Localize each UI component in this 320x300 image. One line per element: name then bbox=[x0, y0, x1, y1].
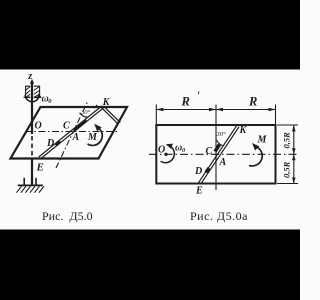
svg-text:0,5R: 0,5R bbox=[282, 132, 292, 149]
svg-text:R: R bbox=[181, 95, 190, 109]
svg-text:O: O bbox=[158, 144, 165, 155]
svg-text:Рис. Д5.0: Рис. Д5.0 bbox=[42, 209, 93, 223]
svg-text:K: K bbox=[239, 125, 248, 136]
svg-text:D: D bbox=[194, 166, 202, 177]
svg-text:D: D bbox=[46, 138, 54, 149]
svg-text:30°: 30° bbox=[216, 131, 227, 138]
svg-text:M: M bbox=[87, 132, 98, 143]
svg-text:C: C bbox=[206, 146, 213, 157]
svg-text:C: C bbox=[63, 121, 70, 132]
svg-text:z: z bbox=[27, 71, 32, 82]
svg-text:M: M bbox=[257, 134, 268, 145]
svg-text:A: A bbox=[219, 157, 227, 168]
svg-text:0,5R: 0,5R bbox=[282, 161, 292, 178]
svg-text:30°: 30° bbox=[80, 109, 91, 116]
svg-text:R: R bbox=[248, 95, 257, 109]
svg-text:A: A bbox=[72, 132, 80, 143]
svg-text:E: E bbox=[36, 161, 44, 173]
svg-text:K: K bbox=[102, 97, 111, 108]
svg-text:E: E bbox=[195, 185, 203, 196]
svg-text:O: O bbox=[35, 121, 42, 132]
svg-text:': ' bbox=[197, 88, 200, 103]
svg-text:Рис. Д5.0а: Рис. Д5.0а bbox=[190, 209, 248, 223]
